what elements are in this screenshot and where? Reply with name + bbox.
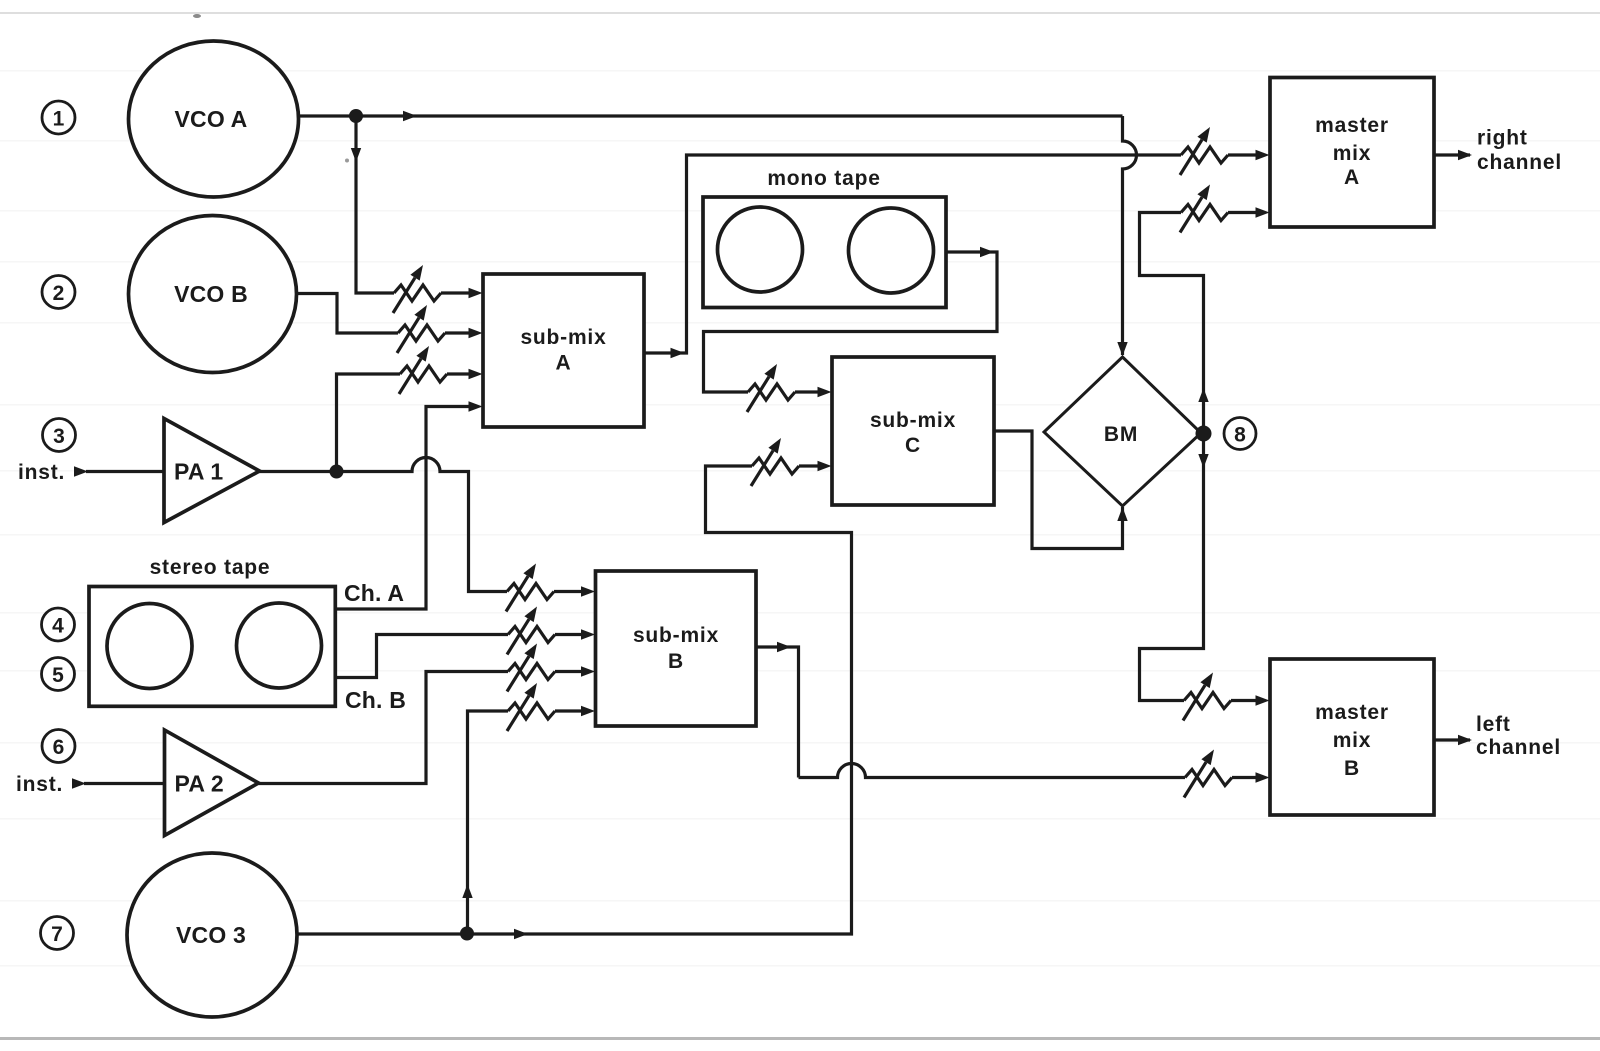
attenuator A3 (PA 1 to sub-mix A) — [399, 346, 447, 394]
svg-text:right: right — [1477, 127, 1528, 150]
svg-text:mono tape: mono tape — [767, 167, 880, 190]
wire: PA 1 junction branch up to sub-mix A input 3 — [337, 374, 401, 472]
svg-text:C: C — [905, 434, 921, 457]
node label 6 — [42, 730, 75, 763]
svg-text:channel: channel — [1476, 736, 1561, 759]
wire: attenuator C2 to sub-mix C input 2 — [799, 464, 820, 467]
attenuator MA1 (sub-mix A to master mix A) — [1180, 127, 1228, 175]
arrowhead: node 8 down branch — [1198, 454, 1208, 468]
oscillator VCO 3 — [127, 853, 297, 1017]
wire: sub-mix C output to BM bottom — [994, 431, 1123, 549]
mixer sub-mix A — [483, 274, 644, 427]
wire: PA 2 output up to sub-mix B input 3 — [259, 672, 509, 784]
svg-text:A: A — [1344, 166, 1360, 189]
svg-text:4: 4 — [52, 615, 64, 638]
wire: attenuator B1 to sub-mix B input 1 — [554, 590, 583, 593]
arrowhead: master mix A input 1 — [1256, 150, 1270, 160]
svg-text:Ch. A: Ch. A — [344, 580, 404, 606]
mixer sub-mix C — [832, 357, 994, 505]
stereo tape deck — [89, 556, 335, 706]
arrowhead: VCO A top line direction — [403, 111, 417, 121]
arrowhead: sub-mix A input 1 — [469, 288, 483, 298]
wire: attenuator B4 to sub-mix B input 4 — [555, 709, 583, 712]
attenuator MB1 (node 8 to master mix B) — [1183, 673, 1231, 721]
wire: attenuator MA1 to master mix A input 1 — [1228, 153, 1257, 156]
arrowhead: master mix A input 2 — [1256, 207, 1270, 217]
svg-text:inst.: inst. — [16, 773, 63, 796]
arrowhead: sub-mix B input 4 — [581, 706, 595, 716]
arrowhead: into BM top — [1117, 342, 1127, 356]
svg-text:VCO 3: VCO 3 — [176, 922, 246, 948]
svg-text:PA 1: PA 1 — [174, 459, 223, 485]
svg-text:2: 2 — [53, 282, 65, 305]
wire: node 8 down to master mix B input 1 — [1140, 434, 1204, 701]
svg-text:A: A — [556, 352, 572, 375]
wire: stereo tape Ch. B to sub-mix B input 2 — [335, 635, 508, 678]
wire: sub-mix B output with hop over VCO 3 line, to master mix B input 2 — [756, 647, 1185, 778]
svg-text:8: 8 — [1234, 424, 1246, 447]
svg-text:channel: channel — [1477, 151, 1562, 174]
svg-text:mix: mix — [1333, 142, 1372, 165]
svg-text:7: 7 — [51, 923, 63, 946]
arrowhead: sub-mix B input 3 — [581, 666, 595, 676]
amplifier PA 1 — [164, 419, 260, 523]
svg-text:sub-mix: sub-mix — [633, 624, 719, 647]
arrowhead: sub-mix C input 1 — [818, 387, 832, 397]
wire: VCO B output to sub-mix A input 2 — [297, 294, 399, 334]
attenuator C1 (mono tape to sub-mix C) — [747, 364, 795, 412]
svg-text:mix: mix — [1333, 729, 1372, 752]
svg-text:5: 5 — [52, 664, 64, 687]
arrowhead: VCO 3 line direction — [514, 929, 528, 939]
svg-text:master: master — [1315, 114, 1389, 137]
attenuator B3 (PA 2 to sub-mix B) — [507, 644, 555, 692]
wire: PA 1 output with hop over Ch. A line, down to sub-mix B input 1 — [259, 458, 507, 592]
node label 2 — [42, 276, 75, 309]
wire: master mix A output to right channel — [1434, 153, 1470, 156]
svg-text:stereo tape: stereo tape — [150, 556, 271, 579]
attenuator MA2 (node 8 to master mix A) — [1180, 185, 1228, 233]
wire: attenuator A1 to sub-mix A input 1 — [441, 291, 470, 294]
svg-text:B: B — [668, 650, 684, 673]
arrowhead: into BM bottom — [1117, 507, 1127, 521]
svg-text:BM: BM — [1104, 423, 1138, 446]
arrowhead: VCO A branch down — [351, 148, 361, 162]
svg-text:sub-mix: sub-mix — [520, 326, 606, 349]
arrowhead: sub-mix A input 4 — [469, 401, 483, 411]
svg-text:VCO A: VCO A — [175, 106, 248, 132]
wire: attenuator MA2 to master mix A input 2 — [1228, 211, 1257, 214]
wire: attenuator C1 to sub-mix C input 1 — [795, 390, 820, 393]
junction dot at PA 1 output — [330, 465, 344, 479]
mixer master mix A — [1270, 78, 1434, 228]
attenuator A1 (VCO A to sub-mix A) — [393, 265, 441, 313]
junction dot at VCO A output — [349, 109, 363, 123]
junction dot node 8 at BM right vertex — [1196, 426, 1212, 442]
node label 3 — [43, 419, 76, 452]
arrowhead: master mix B input 2 — [1256, 772, 1270, 782]
junction dot at VCO 3 output — [460, 927, 474, 941]
svg-text:master: master — [1315, 701, 1389, 724]
svg-text:VCO B: VCO B — [174, 281, 248, 307]
arrowhead: master mix B input 1 — [1256, 695, 1270, 705]
mono tape deck — [703, 167, 946, 308]
attenuator B1 (PA 1 to sub-mix B) — [506, 564, 554, 612]
arrowhead: node 8 up branch — [1198, 388, 1208, 402]
attenuator MB2 (sub-mix B to master mix B) — [1184, 750, 1232, 798]
svg-text:B: B — [1344, 757, 1360, 780]
node label 4 — [42, 608, 75, 641]
wire: sub-mix A output up and right to master mix A input 1 — [644, 155, 1181, 353]
arrowhead: sub-mix A input 3 — [469, 369, 483, 379]
arrowhead: left channel output — [1458, 735, 1472, 745]
arrowhead: sub-mix C input 2 — [818, 461, 832, 471]
wire: VCO 3 junction branch up to sub-mix B input 4 — [468, 711, 509, 934]
wire: inst. input to PA 2 — [84, 782, 165, 785]
node label 1 — [42, 101, 75, 134]
wire: master mix B output to left channel — [1434, 738, 1470, 741]
wire: attenuator B3 to sub-mix B input 3 — [555, 670, 583, 673]
wire: attenuator A2 to sub-mix A input 2 — [445, 331, 470, 334]
svg-text:3: 3 — [53, 425, 65, 448]
arrowhead: VCO 3 branch up — [462, 884, 472, 898]
svg-text:inst.: inst. — [18, 461, 65, 484]
node label 5 — [42, 658, 75, 691]
wire: attenuator MB1 to master mix B input 1 — [1231, 699, 1257, 702]
wire: attenuator B2 to sub-mix B input 2 — [555, 633, 583, 636]
attenuator C2 (VCO 3 to sub-mix C) — [751, 438, 799, 486]
balanced modulator BM — [1044, 357, 1201, 506]
wire: VCO A output to BM (top run) — [299, 114, 1123, 117]
attenuator B2 (Ch. B to sub-mix B) — [507, 607, 555, 655]
arrowhead: sub-mix B input 2 — [581, 629, 595, 639]
amplifier PA 2 — [165, 730, 259, 836]
oscillator VCO A — [129, 41, 299, 197]
svg-text:PA 2: PA 2 — [175, 771, 224, 797]
arrowhead: inst. into PA 2 — [72, 778, 86, 788]
wire: vertical drop into BM top with hop over master-mix-A feed — [1123, 116, 1137, 355]
svg-text:sub-mix: sub-mix — [870, 409, 956, 432]
wire: inst. input to PA 1 — [86, 470, 164, 473]
wire: stereo tape Ch. A up to sub-mix A input 4 — [335, 407, 470, 610]
wire: VCO 3 output run to sub-mix C input 2 — [297, 466, 852, 934]
arrowhead: right channel output — [1458, 150, 1472, 160]
node label 8 — [1224, 418, 1256, 450]
oscillator VCO B — [129, 216, 297, 373]
svg-text:Ch. B: Ch. B — [345, 687, 406, 713]
mixer sub-mix B — [596, 571, 757, 726]
mixer master mix B — [1270, 659, 1434, 815]
svg-text:6: 6 — [53, 736, 65, 759]
svg-text:left: left — [1476, 713, 1511, 736]
arrowhead: sub-mix A input 2 — [469, 328, 483, 338]
attenuator A2 (VCO B to sub-mix A) — [397, 305, 445, 353]
wire: node 8 up to master mix A input 2 — [1140, 213, 1204, 434]
node label 7 — [41, 917, 74, 950]
attenuator B4 (VCO 3 to sub-mix B) — [507, 683, 555, 731]
arrowhead: sub-mix B output — [777, 642, 791, 652]
arrowhead: inst. into PA 1 — [74, 466, 88, 476]
wire: attenuator MB2 to master mix B input 2 — [1232, 776, 1257, 779]
wire: VCO A junction branch down to sub-mix A input 1 — [356, 116, 394, 293]
svg-text:1: 1 — [53, 108, 65, 131]
wire: attenuator A3 to sub-mix A input 3 — [447, 372, 470, 375]
wire: mono tape output loop to sub-mix C input 1 — [704, 252, 998, 392]
arrowhead: sub-mix A output — [671, 348, 685, 358]
arrowhead: sub-mix B input 1 — [581, 586, 595, 596]
arrowhead: mono tape output — [980, 247, 994, 257]
